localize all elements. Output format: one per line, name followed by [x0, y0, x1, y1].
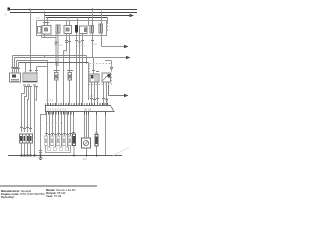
wire bridge x44 y55-y58 — [44, 56, 46, 58]
svg-text:Tuned by:: Tuned by: — [1, 195, 15, 199]
module wire staircase 3 — [28, 86, 29, 132]
svg-text:NR: NR — [66, 17, 70, 21]
injector I4 — [63, 136, 66, 146]
coil group wires to ground — [22, 143, 31, 156]
node dot y63-x56 — [56, 62, 58, 64]
stepper motor box — [82, 138, 91, 148]
arrow down into box — [110, 67, 113, 71]
wire corner x12 down to coil — [12, 56, 14, 74]
arrow out right y57 — [126, 56, 131, 60]
wire vertical x88 bus D to fusebox — [88, 18, 90, 27]
svg-text:NR: NR — [36, 16, 40, 20]
wire vertical x44 bus B down — [44, 13, 46, 19]
wire vertical x82 fusebox to ECM — [82, 34, 84, 107]
module bottom ticks — [23, 85, 38, 87]
wire vertical x30 bus to module — [30, 10, 32, 73]
wire vertical x66 relay K2 jog to ECM — [64, 34, 67, 107]
connector tick x92 — [91, 40, 94, 42]
coil wire group left ticks — [20, 128, 32, 129]
wire harness y55 — [13, 55, 87, 57]
resistor comp x73 — [73, 134, 76, 146]
idle actuator R2 — [102, 73, 111, 82]
module tick x36 — [35, 70, 38, 72]
fusebox enclosure — [37, 21, 107, 36]
ECM ground wire ticks — [39, 151, 42, 153]
wire corner x18 down to coil — [18, 63, 20, 74]
wire harness y60 — [17, 60, 48, 62]
svg-text:M4: M4 — [83, 157, 87, 161]
throttle leg ticks — [90, 99, 108, 100]
wire bus C y15 — [44, 15, 130, 17]
relay K1 — [42, 26, 51, 35]
module wire x36 join — [35, 86, 37, 100]
coil comps group left — [20, 134, 33, 143]
svg-text:CR: CR — [64, 51, 68, 55]
wire vertical x56+x58 fuse F1 to sensor B1 — [56, 33, 58, 73]
fuse F1 — [56, 25, 60, 33]
wire vertical x47 harness to ECM — [47, 61, 49, 107]
ECM connector band — [46, 106, 115, 112]
node dot B-x44 — [44, 12, 46, 14]
sensor comp x96 — [95, 135, 98, 147]
relay K1 pin ticks — [43, 22, 49, 24]
module wire x34 to ground — [34, 86, 36, 156]
stepper motor wires — [85, 112, 89, 138]
wire relay K1 bottom stub — [44, 34, 46, 38]
annotation diagonal faint — [113, 148, 129, 156]
injector feed wires — [47, 112, 74, 147]
arrow out right y46 — [124, 45, 129, 49]
ECM top pin ticks — [45, 103, 107, 106]
node dot A-x30 — [29, 9, 31, 11]
wire x47 jog y66 to module — [37, 67, 48, 74]
module wire staircase 2 — [25, 86, 27, 132]
dashed throttle unit box — [90, 64, 112, 85]
relay K1 inner element — [44, 28, 48, 32]
coil ticks — [11, 68, 20, 69]
footer divider — [0, 185, 97, 187]
arrow out right y95 — [124, 94, 129, 98]
fuse F3 — [99, 24, 103, 33]
injector I1 — [45, 136, 48, 146]
wire module pin x25 — [25, 63, 27, 74]
svg-text:NR RG: NR RG — [76, 44, 84, 48]
connector ticks relay K2 pins — [65, 41, 71, 43]
resistor comp x73 wire down — [73, 146, 75, 156]
ECM wire x40 ground — [41, 112, 47, 156]
sensor B2 lead down — [69, 80, 71, 106]
wire harness y63 — [19, 62, 89, 64]
wire corner x14 down to coil — [14, 58, 16, 74]
injector ticks — [45, 133, 75, 135]
svg-text:Year: 97-99: Year: 97-99 — [46, 194, 62, 198]
wire vertical x92 fuse F2 to arrow y57 — [93, 33, 127, 58]
stepper motor ground wire — [86, 148, 88, 156]
throttle unit legs right — [104, 82, 107, 106]
fuse F1 inner bar — [57, 26, 59, 33]
wire corner x86 y55 to y63 — [86, 56, 88, 63]
box X2 hatched — [80, 26, 88, 34]
terminal box with squares — [46, 146, 71, 153]
fuse F2 — [90, 26, 94, 34]
throttle position sensor R1 — [90, 74, 99, 82]
svg-text:BA: BA — [59, 43, 63, 47]
node dot B-x101 — [101, 12, 103, 14]
wire vertical x101 fuse F3 to arrow y46 — [102, 33, 125, 47]
injector I3 — [57, 136, 60, 146]
sensor comp x96 ground wire — [96, 146, 98, 156]
throttle unit legs left — [92, 82, 98, 106]
module wire staircase 1 — [22, 86, 25, 132]
injector I5 — [69, 136, 72, 146]
sensor B1 — [54, 71, 60, 81]
ground node dots — [20, 154, 97, 156]
fuse F2 inner bar — [91, 26, 93, 33]
wire vertical x92 bus A to fuse F2 — [92, 10, 94, 26]
ignition module hatched — [23, 73, 37, 82]
connector ticks x76-x82 — [75, 41, 84, 43]
node dot A-x92 — [92, 9, 94, 11]
svg-text:104763206355: 104763206355 — [47, 108, 67, 111]
relay K2 — [64, 26, 72, 34]
fuse F3 inner bar — [100, 25, 102, 33]
arrow out top right — [130, 14, 135, 18]
sensor comp x96 tick — [95, 132, 98, 134]
ground bus line — [8, 155, 122, 157]
wire harness y58 — [15, 57, 94, 59]
svg-text:GR: GR — [93, 42, 97, 46]
relay K1 pins — [45, 18, 48, 26]
leg to out arrow — [109, 82, 125, 96]
resistor bar dark — [75, 25, 78, 33]
wire L to down arrow — [105, 61, 112, 69]
wire corner x93 y58 down to sensor — [93, 58, 95, 75]
connector ticks x56 x58 — [55, 42, 59, 44]
wire x105 down — [105, 112, 107, 156]
box X2 inner dark — [84, 28, 87, 33]
footer text right column — [46, 188, 76, 198]
svg-text:12 3 5: 12 3 5 — [46, 98, 54, 102]
wire vertical x76 fusebox to ECM — [76, 33, 78, 107]
module wire staircase 4 — [30, 86, 32, 132]
ECM bottom pin ticks — [46, 112, 106, 115]
wire vertical x101 bus B to fuse F3 — [101, 13, 103, 25]
svg-text:a b: a b — [21, 129, 25, 133]
sensor B1 lead down — [56, 80, 58, 106]
wire bus A y9 — [8, 9, 137, 11]
box X1 small — [38, 27, 42, 34]
wire vertical x77 bus D to fusebox — [77, 18, 79, 26]
sensor B2 — [67, 71, 73, 81]
wire dashed x107 fusebox lead — [107, 22, 109, 32]
footer text left column — [1, 189, 45, 199]
wire y38 link — [42, 36, 57, 38]
ground symbol — [39, 156, 43, 160]
module tick x30 — [29, 70, 32, 72]
wire vertical x69 relay K2 to sensor B2 — [69, 34, 71, 73]
wire bus B y12 — [10, 12, 137, 14]
wire corner x16 down to coil — [16, 61, 18, 74]
relay K2 pins — [67, 21, 70, 26]
node dot y63-x86 — [86, 62, 88, 64]
wire vertical x107 bus D corner down — [107, 18, 109, 23]
svg-text:18 9: 18 9 — [88, 94, 94, 98]
svg-text:27 32 14 6 21: 27 32 14 6 21 — [47, 121, 63, 125]
wire vertical x79 fusebox to ECM — [79, 34, 81, 107]
node battery terminal square — [8, 8, 11, 11]
sensor comp x96 wire up — [96, 112, 98, 135]
leg x107 short — [106, 98, 108, 106]
throttle sensor ticks — [92, 71, 99, 72]
wire corner x88 y63 to ECM — [88, 63, 90, 101]
svg-text:30 15: 30 15 — [84, 107, 91, 111]
relay K2 inner element — [66, 28, 70, 32]
injector I2 — [51, 136, 54, 146]
node dot y63-x70 — [69, 62, 71, 64]
wire bus D y17 — [46, 17, 108, 19]
ignition coil T1 — [10, 73, 21, 82]
